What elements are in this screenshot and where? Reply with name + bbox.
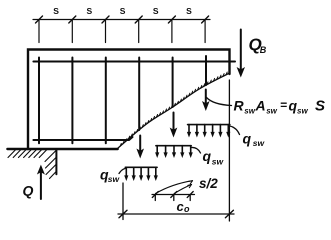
svg-text:S: S (120, 6, 126, 16)
svg-text:=: = (280, 98, 287, 112)
svg-text:R: R (234, 98, 245, 114)
svg-text:S: S (315, 98, 325, 115)
svg-text:S: S (53, 6, 59, 16)
svg-text:S: S (186, 6, 192, 16)
svg-text:B: B (260, 45, 267, 55)
svg-text:s/2: s/2 (199, 176, 218, 191)
svg-text:S: S (153, 6, 159, 16)
svg-text:sw: sw (108, 174, 121, 184)
svg-text:sw: sw (212, 157, 225, 167)
svg-text:sw: sw (244, 107, 255, 116)
svg-text:q: q (243, 131, 252, 147)
svg-text:sw: sw (266, 107, 277, 116)
svg-text:Q: Q (23, 183, 34, 199)
svg-text:o: o (184, 204, 190, 214)
svg-text:S: S (87, 6, 93, 16)
svg-text:sw: sw (297, 107, 308, 116)
svg-text:q: q (203, 148, 212, 164)
svg-text:sw: sw (253, 138, 266, 148)
svg-text:A: A (255, 98, 266, 114)
